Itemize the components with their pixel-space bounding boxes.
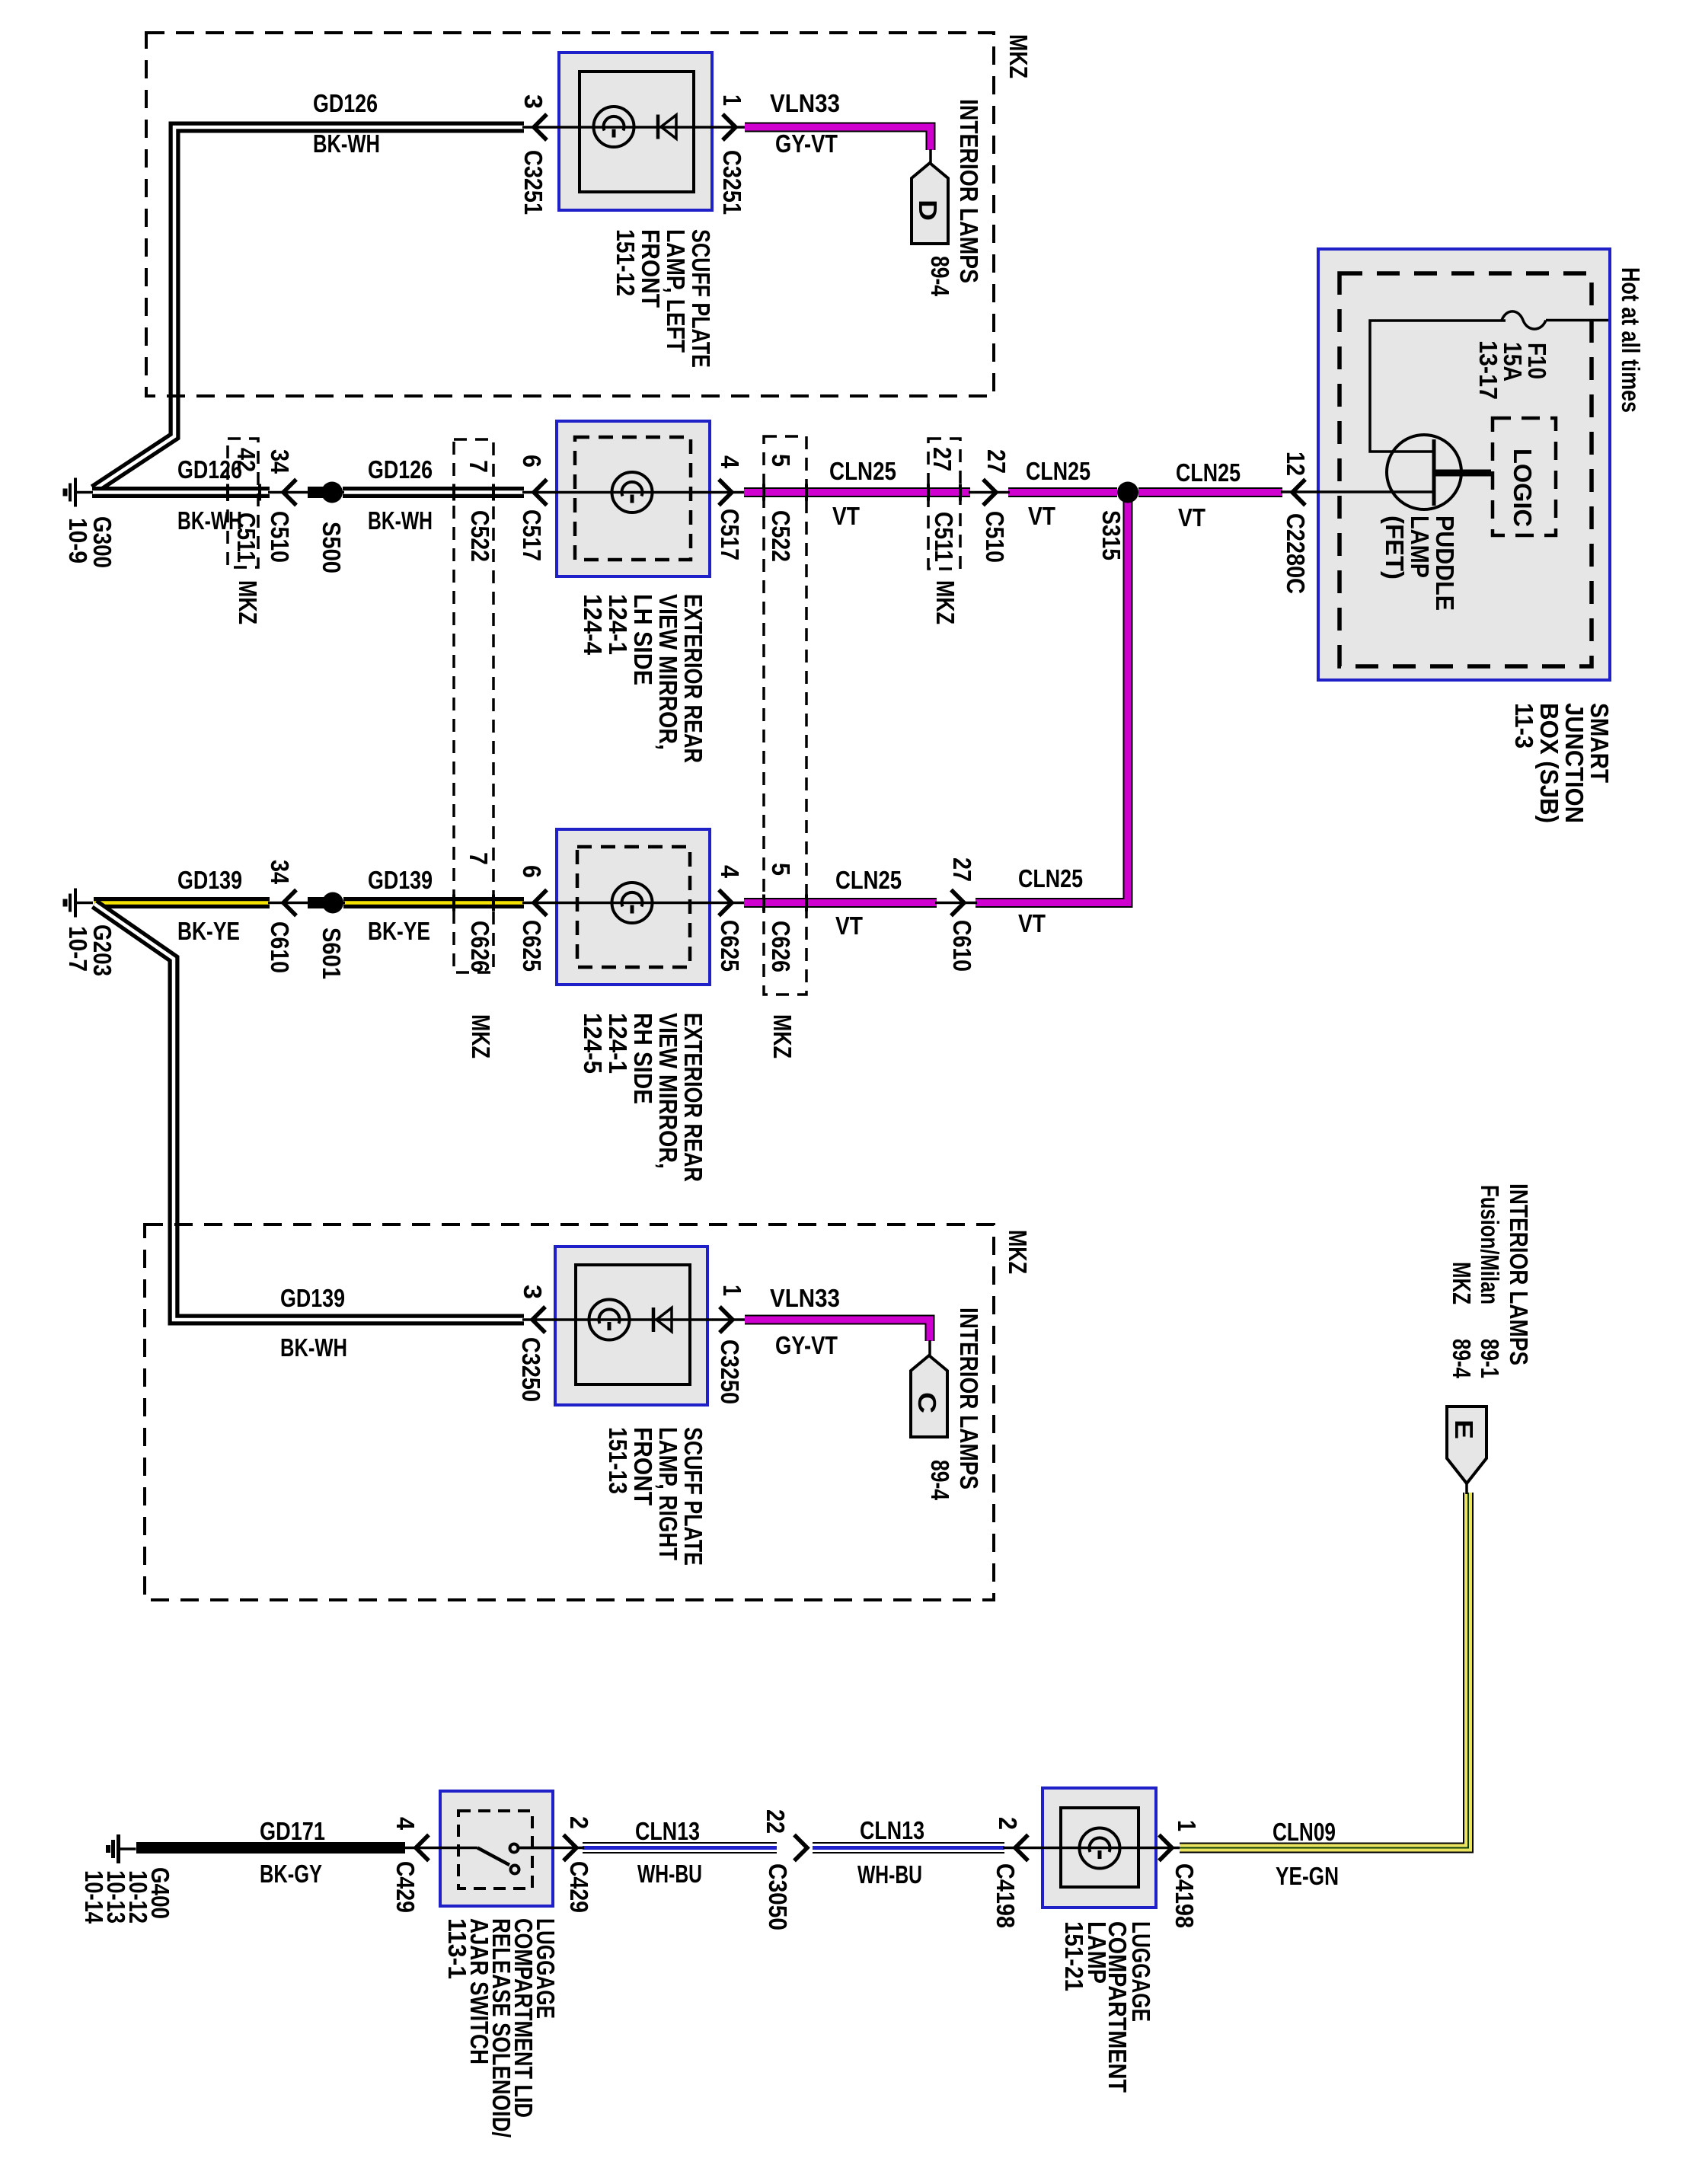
inner dashed box ajar switch <box>458 1811 532 1889</box>
connector arrow C517 pin 4 <box>719 480 732 506</box>
svg-text:CLN25: CLN25 <box>1026 457 1090 485</box>
junction tick x=596 row3 <box>452 895 455 912</box>
svg-text:VT: VT <box>1178 503 1205 532</box>
svg-text:BK-GY: BK-GY <box>260 1860 322 1888</box>
inline connector box C511 pin 27 (MKZ) <box>928 439 960 569</box>
svg-text:34: 34 <box>266 449 294 474</box>
svg-text:27: 27 <box>928 447 956 471</box>
svg-text:VIEW MIRROR,: VIEW MIRROR, <box>654 1013 682 1169</box>
svg-text:FRONT: FRONT <box>637 229 665 308</box>
svg-text:CLN25: CLN25 <box>835 866 902 894</box>
junction tick x=1003 row3 <box>762 895 765 912</box>
svg-text:C3251: C3251 <box>519 150 548 215</box>
svg-text:10-14: 10-14 <box>80 1870 108 1924</box>
wire stub at splice S500 <box>308 487 332 498</box>
lamp symbol, scuff plate lamp right front <box>589 1300 630 1340</box>
connector arrow C3250 pin 1 <box>720 1307 733 1333</box>
svg-text:42: 42 <box>232 448 260 472</box>
wire CLN13 WH-BU from switch pin 2 to C3050 <box>583 1842 777 1854</box>
svg-text:BK-YE: BK-YE <box>368 917 430 945</box>
svg-text:LAMP, LEFT: LAMP, LEFT <box>662 229 690 353</box>
wire CLN25 VT from mirror LH pin 4 to C510 pin 27 <box>744 487 970 497</box>
svg-text:89-1: 89-1 <box>1476 1339 1504 1378</box>
junction tick x=1261 row2 <box>959 484 962 501</box>
svg-text:INTERIOR LAMPS: INTERIOR LAMPS <box>955 1308 983 1490</box>
svg-text:6: 6 <box>518 865 546 878</box>
svg-text:C3251: C3251 <box>718 150 746 215</box>
component box: scuff plate lamp left front <box>559 53 712 210</box>
connector arrow C510 pin 27 <box>983 480 996 506</box>
svg-text:3: 3 <box>519 94 548 109</box>
lamp symbol, scuff plate lamp left front <box>594 107 634 147</box>
svg-text:7: 7 <box>465 852 493 865</box>
wire thin link at C610/S601 row3 <box>268 902 345 905</box>
svg-text:C626: C626 <box>466 921 494 972</box>
svg-text:D: D <box>914 200 942 221</box>
wire link to connector C <box>928 1340 931 1356</box>
svg-text:VT: VT <box>1018 909 1046 937</box>
splice S315 <box>1117 482 1138 503</box>
svg-text:C610: C610 <box>948 920 976 972</box>
wire thin link through mirror LH <box>522 491 744 494</box>
svg-text:C4198: C4198 <box>991 1863 1020 1928</box>
svg-text:CLN25: CLN25 <box>829 457 896 485</box>
svg-text:C429: C429 <box>565 1861 593 1913</box>
svg-text:GD139: GD139 <box>280 1284 345 1312</box>
wire thin link at C510/S500 row2 <box>268 491 344 494</box>
wire GD139 BK-YE from S601 to mirror RH pin 6 <box>343 897 524 908</box>
svg-text:C625: C625 <box>518 920 546 972</box>
svg-text:3: 3 <box>519 1285 547 1299</box>
svg-text:C3250: C3250 <box>517 1337 545 1402</box>
wire CLN25 VT from C610 pin 27 up to splice S315 <box>976 497 1128 903</box>
svg-text:C: C <box>913 1392 941 1413</box>
connector arrow C4198 pin 1 <box>1159 1835 1172 1861</box>
svg-text:C511: C511 <box>930 512 958 562</box>
svg-text:89-4: 89-4 <box>926 256 954 297</box>
svg-text:MKZ: MKZ <box>1004 1230 1032 1274</box>
svg-text:2: 2 <box>994 1817 1022 1830</box>
ground G300 <box>65 478 94 507</box>
svg-text:151-12: 151-12 <box>611 229 640 296</box>
svg-text:LAMP, RIGHT: LAMP, RIGHT <box>654 1427 682 1560</box>
connector tag C (to interior lamps 89-4) <box>911 1355 947 1437</box>
component box: exterior rear view mirror LH <box>557 421 710 576</box>
svg-text:EXTERIOR REAR: EXTERIOR REAR <box>679 594 707 763</box>
wire link from connector E <box>1465 1483 1468 1494</box>
svg-text:11-3: 11-3 <box>1510 703 1538 749</box>
svg-text:5: 5 <box>767 863 795 876</box>
svg-text:GD126: GD126 <box>368 455 433 484</box>
svg-text:CLN13: CLN13 <box>860 1816 924 1844</box>
svg-text:151-21: 151-21 <box>1060 1921 1088 1991</box>
wire GD139 BK-YE from G203 to C610 pin 34 <box>94 897 270 908</box>
svg-text:VT: VT <box>832 502 860 530</box>
svg-text:MKZ: MKZ <box>768 1014 797 1058</box>
svg-text:CLN25: CLN25 <box>1176 458 1241 487</box>
diode symbol, scuff plate lamp right front <box>653 1308 672 1332</box>
svg-text:MKZ: MKZ <box>1448 1262 1476 1304</box>
switch symbol, luggage compartment lid ajar switch <box>440 1844 553 1874</box>
svg-text:4: 4 <box>716 865 744 879</box>
svg-text:C4198: C4198 <box>1170 1863 1199 1928</box>
junction tick x=648 row2 <box>492 484 495 501</box>
svg-text:BK-WH: BK-WH <box>280 1333 347 1362</box>
svg-text:22: 22 <box>762 1809 790 1834</box>
svg-text:6: 6 <box>518 455 546 468</box>
svg-text:INTERIOR LAMPS: INTERIOR LAMPS <box>1505 1183 1533 1365</box>
svg-text:SMART: SMART <box>1585 703 1614 783</box>
svg-text:CLN09: CLN09 <box>1272 1818 1336 1846</box>
svg-text:LOGIC: LOGIC <box>1509 449 1537 527</box>
ground G203 <box>65 889 94 918</box>
svg-text:34: 34 <box>266 860 294 885</box>
wire VLN33 GY-VT from scuff lamp right pin 1 to connector C <box>745 1320 930 1341</box>
svg-text:C3050: C3050 <box>764 1863 792 1930</box>
wire CLN25 VT from S315 to SJB pin 12 <box>1138 487 1282 497</box>
svg-text:1: 1 <box>718 1285 746 1296</box>
svg-text:2: 2 <box>565 1816 593 1829</box>
svg-text:MKZ: MKZ <box>234 580 262 624</box>
svg-text:27: 27 <box>948 857 976 882</box>
junction tick x=1003 row2 <box>762 484 765 501</box>
svg-text:WH-BU: WH-BU <box>637 1860 702 1888</box>
wire CLN13 WH-BU from C3050 to lamp pin 2 <box>813 1842 1004 1854</box>
lamp symbol, luggage compartment lamp <box>1080 1828 1120 1869</box>
harness option box MKZ (top, scuff plate lamp left) <box>146 33 994 396</box>
svg-text:SCUFF PLATE: SCUFF PLATE <box>687 229 715 368</box>
svg-text:INTERIOR LAMPS: INTERIOR LAMPS <box>955 99 983 283</box>
connector arrow C3251 pin 3 <box>534 114 547 140</box>
inline connector box C522/C626 pin 7 <box>454 439 493 972</box>
svg-text:VLN33: VLN33 <box>770 1284 840 1312</box>
svg-text:7: 7 <box>465 460 493 473</box>
junction tick x=648 row3 <box>492 895 495 912</box>
svg-text:C2280C: C2280C <box>1282 513 1310 594</box>
splice S601 <box>322 892 343 914</box>
svg-text:FRONT: FRONT <box>629 1427 657 1505</box>
connector arrow C429 pin 4 <box>416 1835 429 1861</box>
svg-text:5: 5 <box>767 454 795 467</box>
svg-text:VT: VT <box>1028 502 1055 530</box>
svg-text:BK-WH: BK-WH <box>313 129 380 158</box>
svg-text:124-4: 124-4 <box>579 594 607 656</box>
svg-text:S315: S315 <box>1097 510 1126 560</box>
svg-text:C522: C522 <box>767 510 795 562</box>
component box: smart junction box (SJB) <box>1318 249 1610 680</box>
svg-text:VLN33: VLN33 <box>770 89 840 117</box>
svg-text:89-4: 89-4 <box>1448 1339 1476 1378</box>
svg-text:124-1: 124-1 <box>604 594 632 655</box>
svg-text:VIEW MIRROR,: VIEW MIRROR, <box>654 594 682 750</box>
wire thin link at C510 pin27 row2 <box>969 491 1010 494</box>
connector arrow C517 pin 6 <box>534 480 547 506</box>
svg-text:4: 4 <box>391 1817 420 1831</box>
wire CLN09 YE-GN from lamp pin 1 to connector E <box>1180 1493 1468 1848</box>
lamp symbol, mirror RH puddle lamp <box>612 883 653 923</box>
svg-text:BOX (SJB): BOX (SJB) <box>1535 703 1563 823</box>
logic block in SJB <box>1493 418 1556 535</box>
svg-text:E: E <box>1450 1419 1478 1439</box>
connector tag D (to interior lamps 89-4) <box>912 163 948 244</box>
connector arrow C610 pin 34 <box>283 890 296 916</box>
svg-text:YE-GN: YE-GN <box>1276 1862 1339 1890</box>
junction tick x=1219 row2 <box>927 484 930 501</box>
junction tick x=299 row2 <box>226 484 229 501</box>
wire GD126 BK-WH from G300 to C510 pin 34 <box>92 487 270 498</box>
svg-text:GY-VT: GY-VT <box>775 129 838 158</box>
transistor: puddle lamp FET in SJB <box>1387 435 1491 509</box>
svg-text:GD126: GD126 <box>313 89 378 117</box>
svg-text:C510: C510 <box>266 511 294 563</box>
svg-text:124-1: 124-1 <box>604 1013 632 1074</box>
inner dashed box SJB <box>1340 273 1592 666</box>
inline connector box C511 pin 42 (MKZ) <box>228 439 258 567</box>
svg-text:GY-VT: GY-VT <box>775 1331 838 1359</box>
wire GD171 BK-GY from G400 to switch pin 4 <box>136 1842 405 1854</box>
inner box scuff lamp right <box>576 1265 690 1384</box>
svg-text:4: 4 <box>716 455 744 469</box>
svg-text:EXTERIOR REAR: EXTERIOR REAR <box>679 1013 707 1182</box>
svg-text:113-1: 113-1 <box>443 1918 471 1979</box>
wire thin link through scuff lamp left <box>522 126 745 129</box>
svg-text:27: 27 <box>982 449 1011 474</box>
svg-text:GD139: GD139 <box>177 866 242 894</box>
svg-text:(FET): (FET) <box>1381 516 1409 580</box>
svg-text:LAMP: LAMP <box>1406 516 1434 578</box>
wire thin link through luggage lamp <box>1003 1847 1180 1850</box>
wire GD139 BK-WH from G203 to scuff lamp right pin 3 <box>94 904 524 1320</box>
svg-text:S500: S500 <box>318 522 346 573</box>
wire thin link at C610 pin27 row3 <box>935 902 977 905</box>
svg-text:S601: S601 <box>318 928 346 979</box>
svg-text:WH-BU: WH-BU <box>857 1860 922 1889</box>
svg-text:C517: C517 <box>518 509 546 561</box>
connector arrow C510 pin 34 <box>283 480 296 506</box>
svg-text:CLN25: CLN25 <box>1018 864 1083 892</box>
svg-text:10-7: 10-7 <box>64 926 92 972</box>
wire CLN25 VT from mirror RH pin 4 to C610 pin 27 <box>744 898 937 908</box>
splice S500 <box>321 482 343 503</box>
component box: luggage compartment lamp <box>1043 1788 1156 1908</box>
connector arrow C625 pin 6 <box>534 890 547 916</box>
svg-text:CLN13: CLN13 <box>635 1817 700 1845</box>
svg-text:JUNCTION: JUNCTION <box>1560 703 1589 823</box>
svg-text:C626: C626 <box>767 921 795 972</box>
svg-text:124-5: 124-5 <box>579 1013 607 1074</box>
svg-text:89-4: 89-4 <box>926 1460 954 1501</box>
connector arrow C625 pin 4 <box>719 890 732 916</box>
svg-text:C511: C511 <box>232 512 260 563</box>
fuse F10 15A in SJB <box>1370 311 1608 452</box>
inner dashed box mirror LH <box>575 437 691 560</box>
inner box scuff lamp left <box>580 72 694 192</box>
svg-text:C517: C517 <box>716 509 744 560</box>
svg-text:PUDDLE: PUDDLE <box>1431 516 1459 611</box>
inline connector box C522/C626 pin 5 <box>764 436 806 995</box>
svg-text:12: 12 <box>1282 452 1310 476</box>
junction tick x=1059 row2 <box>805 484 808 501</box>
wire thin link through mirror RH <box>522 902 744 905</box>
svg-text:LH SIDE: LH SIDE <box>629 594 657 685</box>
wire thin link through scuff lamp right <box>522 1318 745 1321</box>
lamp symbol, mirror LH puddle lamp <box>612 472 653 512</box>
svg-text:C510: C510 <box>981 511 1009 563</box>
svg-text:Hot at all times: Hot at all times <box>1617 267 1645 413</box>
connector tag E (from interior lamps 89-1) <box>1447 1407 1486 1483</box>
svg-text:RH SIDE: RH SIDE <box>629 1013 657 1104</box>
connector arrow C4198 pin 2 <box>1015 1835 1028 1861</box>
connector arrow C2280C pin 12 <box>1292 480 1305 506</box>
wire stub at splice S601 <box>308 897 333 908</box>
inner dashed box mirror RH <box>577 847 690 967</box>
svg-text:1: 1 <box>1173 1820 1201 1831</box>
svg-text:BK-YE: BK-YE <box>177 917 240 945</box>
svg-text:GD139: GD139 <box>368 866 433 894</box>
svg-text:MKZ: MKZ <box>931 580 960 624</box>
wire thin link at C429 pin4 <box>405 1847 442 1850</box>
svg-text:151-13: 151-13 <box>604 1427 632 1494</box>
connector arrow C3050 pin 22 <box>794 1835 807 1861</box>
svg-text:C522: C522 <box>466 510 494 562</box>
component box: scuff plate lamp right front <box>555 1247 707 1405</box>
wire link to connector D <box>929 149 932 164</box>
wire CLN25 VT from C510 pin 27 to splice S315 <box>1008 487 1117 497</box>
svg-text:1: 1 <box>718 94 746 106</box>
svg-text:MKZ: MKZ <box>467 1014 495 1058</box>
svg-text:VT: VT <box>835 912 863 940</box>
svg-text:Fusion/Milan: Fusion/Milan <box>1476 1185 1504 1304</box>
component box: luggage compartment lid release solenoid/ajar switch <box>440 1791 553 1906</box>
svg-text:C610: C610 <box>266 921 294 973</box>
component box: exterior rear view mirror RH <box>557 829 710 985</box>
connector arrow C429 pin 2 <box>564 1835 576 1861</box>
wire thin link SJB pin 12 to FET source <box>1281 490 1434 493</box>
svg-text:10-9: 10-9 <box>64 518 92 564</box>
harness option box MKZ (bottom, scuff plate lamp right) <box>145 1225 994 1600</box>
junction tick x=341 row2 <box>258 484 261 501</box>
svg-text:13-17: 13-17 <box>1474 340 1502 400</box>
svg-text:GD171: GD171 <box>260 1817 325 1845</box>
wire thin link at C429 pin2 <box>519 1847 584 1850</box>
connector arrow C3250 pin 3 <box>532 1307 545 1333</box>
wire GD126 BK-WH from scuff lamp left pin3 to G300 <box>94 127 524 490</box>
svg-text:SCUFF PLATE: SCUFF PLATE <box>679 1427 707 1566</box>
connector arrow C3251 pin 1 <box>723 114 736 140</box>
svg-text:C625: C625 <box>716 920 744 972</box>
svg-text:BK-WH: BK-WH <box>368 506 433 535</box>
connector arrow C610 pin 27 <box>951 890 964 916</box>
wire VLN33 GY-VT from scuff lamp left pin 1 to connector D <box>745 127 931 150</box>
wire GD126 BK-WH from S500 to mirror LH pin 6 <box>343 487 524 498</box>
junction tick x=596 row2 <box>452 484 455 501</box>
svg-text:MKZ: MKZ <box>1004 34 1033 78</box>
junction tick x=1059 row3 <box>805 895 808 912</box>
diode symbol, scuff plate lamp left front <box>658 115 676 139</box>
ground G400 <box>108 1834 136 1863</box>
inner box luggage lamp <box>1061 1808 1138 1887</box>
svg-text:C3250: C3250 <box>716 1339 744 1404</box>
svg-text:C429: C429 <box>391 1861 420 1913</box>
